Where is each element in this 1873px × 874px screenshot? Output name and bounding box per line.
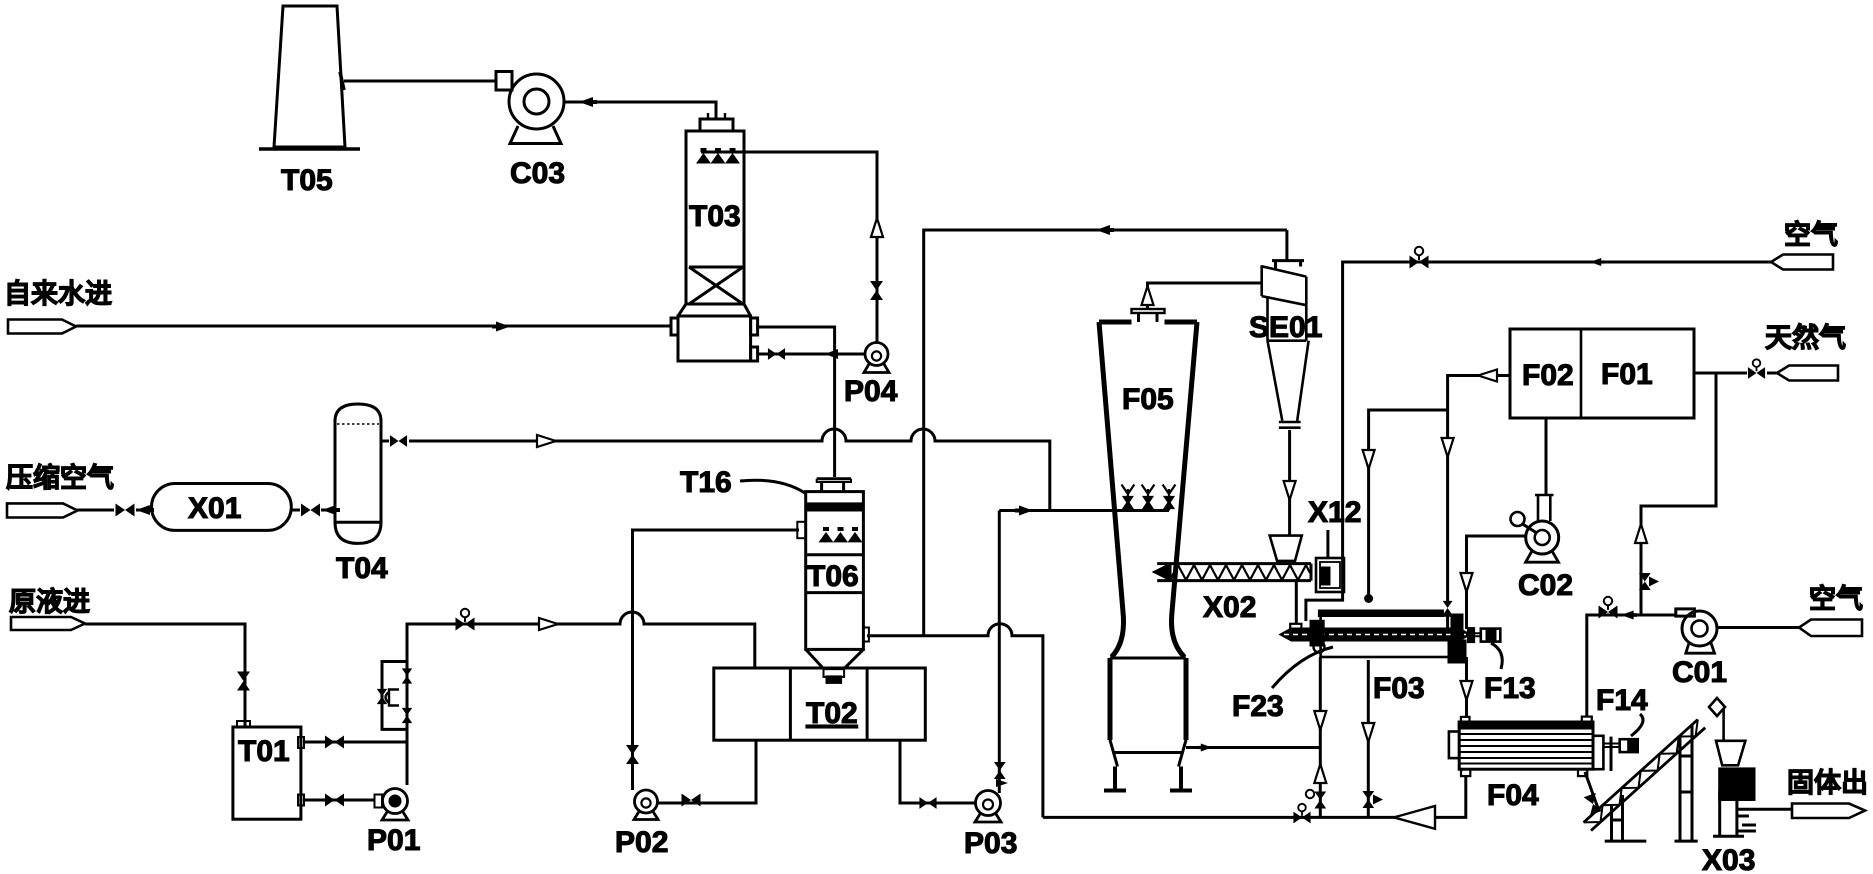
svg-text:T16: T16 xyxy=(680,466,732,499)
svg-text:P04: P04 xyxy=(844,375,898,408)
svg-text:F04: F04 xyxy=(1487,779,1539,812)
svg-text:T03: T03 xyxy=(689,200,741,233)
svg-text:固体出: 固体出 xyxy=(1787,768,1868,798)
svg-text:X12: X12 xyxy=(1308,496,1361,529)
svg-text:空气: 空气 xyxy=(1809,583,1863,614)
svg-text:X03: X03 xyxy=(1702,844,1755,874)
svg-text:T06: T06 xyxy=(807,560,859,593)
svg-text:T01: T01 xyxy=(238,735,290,768)
svg-text:F02: F02 xyxy=(1522,359,1574,392)
svg-text:压缩空气: 压缩空气 xyxy=(6,462,114,493)
svg-text:C02: C02 xyxy=(1518,569,1573,602)
svg-text:F03: F03 xyxy=(1373,672,1425,705)
svg-text:T05: T05 xyxy=(281,164,333,197)
svg-text:X01: X01 xyxy=(188,492,241,525)
svg-text:F23: F23 xyxy=(1232,690,1284,723)
svg-text:F05: F05 xyxy=(1122,383,1174,416)
svg-text:天然气: 天然气 xyxy=(1765,322,1846,353)
svg-text:F01: F01 xyxy=(1601,358,1653,391)
svg-text:C01: C01 xyxy=(1672,656,1727,689)
svg-text:空气: 空气 xyxy=(1784,219,1838,250)
svg-text:P03: P03 xyxy=(964,827,1017,860)
svg-text:T04: T04 xyxy=(336,552,388,585)
svg-text:F14: F14 xyxy=(1596,684,1648,717)
svg-text:SE01: SE01 xyxy=(1249,311,1322,344)
svg-text:X02: X02 xyxy=(1203,591,1256,624)
svg-text:自来水进: 自来水进 xyxy=(4,278,112,309)
svg-text:P01: P01 xyxy=(367,824,420,857)
svg-text:T02: T02 xyxy=(806,697,858,730)
svg-text:C03: C03 xyxy=(510,157,565,190)
svg-text:原液进: 原液进 xyxy=(9,587,90,617)
svg-text:P02: P02 xyxy=(615,826,668,859)
svg-text:F13: F13 xyxy=(1484,672,1536,705)
